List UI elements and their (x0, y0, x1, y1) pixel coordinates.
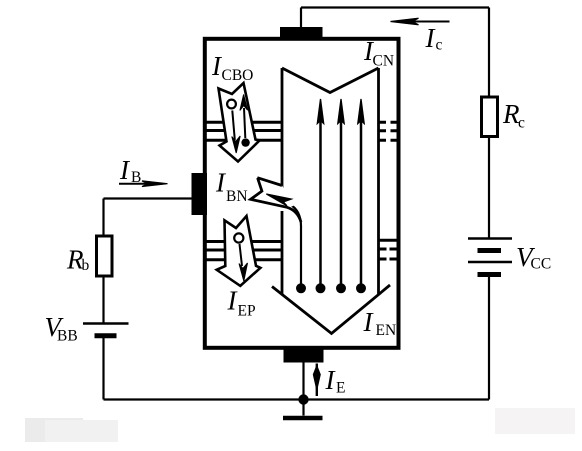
svg-text:c: c (518, 115, 525, 132)
svg-text:I: I (325, 365, 337, 395)
svg-text:BB: BB (57, 328, 78, 345)
svg-text:I: I (119, 155, 131, 185)
svg-text:EP: EP (238, 303, 256, 320)
svg-text:b: b (82, 257, 90, 274)
svg-text:CN: CN (373, 53, 395, 70)
svg-text:CC: CC (531, 256, 552, 273)
svg-text:I: I (363, 307, 375, 337)
svg-text:BN: BN (226, 188, 248, 205)
svg-text:CBO: CBO (222, 67, 254, 84)
svg-text:E: E (336, 380, 345, 397)
svg-text:c: c (436, 37, 443, 54)
svg-text:B: B (131, 169, 141, 186)
svg-text:EN: EN (376, 322, 397, 339)
